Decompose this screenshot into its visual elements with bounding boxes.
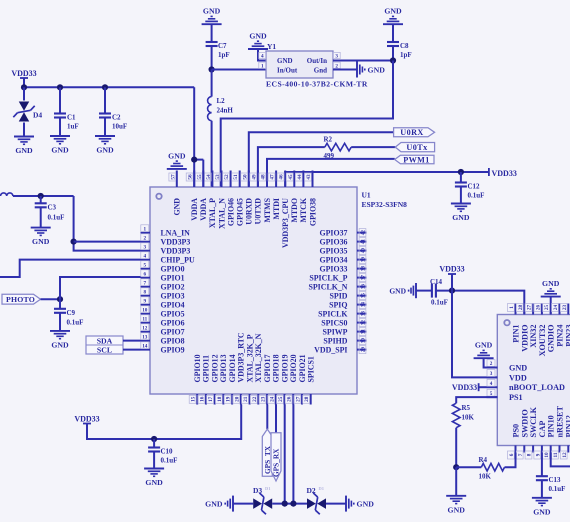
pin 8 U2 SWCLK bbox=[532, 445, 534, 452]
pin 27 U1 GPIO21 bbox=[301, 394, 303, 405]
wire R4-PS0 bbox=[505, 453, 516, 468]
svg-text:9: 9 bbox=[535, 453, 541, 456]
svg-text:2: 2 bbox=[490, 361, 493, 367]
pin 3 U2 VDD bbox=[487, 376, 498, 378]
capacitor C13 bbox=[536, 475, 548, 477]
svg-text:GND: GND bbox=[357, 499, 375, 508]
svg-text:8: 8 bbox=[144, 289, 147, 295]
pin 31 U1 SPIWP bbox=[357, 331, 367, 333]
pin 29 U1 VDD_SPI bbox=[357, 349, 367, 351]
svg-text:19: 19 bbox=[226, 396, 232, 402]
svg-text:38: 38 bbox=[361, 266, 367, 272]
flag GPS_TX bbox=[262, 429, 272, 476]
svg-text:nRESET: nRESET bbox=[556, 406, 565, 438]
wire Y1pin2 bbox=[333, 69, 357, 71]
svg-text:27: 27 bbox=[295, 396, 301, 402]
svg-text:24: 24 bbox=[269, 396, 275, 402]
svg-text:SWDIO: SWDIO bbox=[520, 409, 529, 437]
svg-text:GPIO36: GPIO36 bbox=[319, 237, 347, 246]
pin 32 U1 SPICS0 bbox=[357, 322, 367, 324]
node rail-D4 bbox=[21, 84, 27, 90]
svg-text:6: 6 bbox=[144, 271, 147, 277]
svg-text:XTAL_N: XTAL_N bbox=[217, 198, 226, 229]
svg-text:45: 45 bbox=[288, 174, 294, 180]
svg-text:GPS_RX: GPS_RX bbox=[272, 448, 281, 477]
pin 5 U2 PS1 bbox=[487, 396, 498, 398]
svg-text:GPIO14: GPIO14 bbox=[228, 354, 237, 382]
svg-text:GPIO46: GPIO46 bbox=[226, 198, 235, 226]
pin 24 U2 PIN24 bbox=[559, 304, 561, 315]
svg-text:C8: C8 bbox=[400, 42, 409, 50]
svg-text:20: 20 bbox=[234, 396, 240, 402]
svg-text:29: 29 bbox=[361, 347, 367, 353]
svg-text:ESP32-S3FN8: ESP32-S3FN8 bbox=[362, 200, 408, 209]
pin 11 U1 GPIO6 bbox=[141, 322, 151, 324]
svg-text:C7: C7 bbox=[218, 42, 227, 50]
svg-text:D3: D3 bbox=[253, 486, 262, 495]
wire L1-C3 bbox=[13, 195, 74, 197]
wire CHIP_PU route bbox=[0, 260, 141, 277]
pin 25 U2 GNDIO bbox=[550, 304, 552, 315]
wire C12 lead bbox=[460, 172, 462, 183]
svg-text:GPIO45: GPIO45 bbox=[236, 198, 245, 226]
svg-text:56: 56 bbox=[188, 174, 194, 180]
svg-text:GPIO17: GPIO17 bbox=[263, 354, 272, 382]
capacitor C9 bbox=[54, 308, 66, 310]
pin 2 U2 GND bbox=[487, 367, 498, 369]
svg-text:C10: C10 bbox=[161, 448, 174, 456]
wire gnd-C14 bbox=[416, 290, 432, 292]
ground C3 bbox=[31, 227, 51, 229]
flag GPS_RX bbox=[271, 433, 281, 481]
svg-text:R5: R5 bbox=[462, 404, 471, 412]
svg-text:0.1uF: 0.1uF bbox=[161, 457, 178, 465]
svg-text:9: 9 bbox=[144, 298, 147, 304]
capacitor C3 bbox=[35, 202, 47, 204]
pin 28 U2 VDDIO bbox=[523, 304, 525, 315]
svg-text:nBOOT_LOAD: nBOOT_LOAD bbox=[509, 383, 565, 392]
svg-text:C12: C12 bbox=[468, 183, 481, 191]
pin 46 U1 VDD3P3_CPU bbox=[284, 171, 286, 188]
svg-text:35: 35 bbox=[361, 293, 367, 299]
ground Y1-pin2 bbox=[356, 62, 358, 78]
svg-text:SDA: SDA bbox=[97, 336, 113, 345]
label SDA SCL bbox=[86, 336, 123, 354]
wire VDD33-rtc rail bbox=[87, 405, 241, 440]
pin 12 U1 GPIO7 bbox=[141, 331, 151, 333]
svg-text:15: 15 bbox=[191, 396, 197, 402]
pin 1 U1 LNA_IN bbox=[141, 232, 151, 234]
crystal Y1 body bbox=[266, 51, 333, 78]
ground C1 bbox=[50, 135, 70, 137]
svg-text:1uF: 1uF bbox=[67, 123, 79, 131]
svg-text:GPIO7: GPIO7 bbox=[161, 327, 185, 336]
svg-text:12: 12 bbox=[142, 325, 148, 331]
svg-text:GPIO37: GPIO37 bbox=[319, 228, 347, 237]
svg-text:36: 36 bbox=[361, 284, 367, 290]
node R5-R4 junction bbox=[453, 464, 459, 470]
pin 2 U1 VDD3P3 bbox=[141, 241, 151, 243]
svg-text:GPIO33: GPIO33 bbox=[319, 264, 347, 273]
svg-text:U0Tx: U0Tx bbox=[406, 143, 428, 152]
svg-text:55: 55 bbox=[197, 174, 203, 180]
pin 9 U1 GPIO4 bbox=[141, 304, 151, 306]
svg-text:0.1uF: 0.1uF bbox=[48, 213, 65, 221]
svg-text:54: 54 bbox=[206, 174, 212, 180]
svg-text:MTMS: MTMS bbox=[263, 197, 272, 222]
svg-text:1: 1 bbox=[509, 306, 515, 309]
pin 33 U1 SPICLK bbox=[357, 313, 367, 315]
node rail-C2 bbox=[102, 84, 108, 90]
svg-text:VDDA: VDDA bbox=[190, 198, 199, 221]
ground D4 bbox=[14, 136, 34, 138]
pin 23 U1 GPIO17 bbox=[266, 394, 268, 405]
svg-text:GPIO6: GPIO6 bbox=[161, 318, 185, 327]
svg-text:32: 32 bbox=[361, 320, 367, 326]
pin 41 U1 GPIO36 bbox=[357, 241, 367, 243]
pin 10 U1 GPIO5 bbox=[141, 313, 151, 315]
diode D3 bbox=[253, 498, 262, 509]
ground U2-GNDIO bbox=[541, 296, 561, 298]
pin 6 U1 GPIO1 bbox=[141, 277, 151, 279]
pin 30 U1 SPIHD bbox=[357, 340, 367, 342]
svg-text:XIN32: XIN32 bbox=[529, 325, 538, 348]
ground D2-right bbox=[345, 496, 347, 512]
pin 54 U1 XTAL_P bbox=[211, 171, 213, 188]
svg-text:GND: GND bbox=[533, 507, 551, 516]
capacitor C7 bbox=[206, 41, 218, 43]
pin 38 U1 GPIO33 bbox=[357, 268, 367, 270]
pin 35 U1 SPID bbox=[357, 295, 367, 297]
svg-text:D1: D1 bbox=[319, 486, 325, 491]
svg-text:GND: GND bbox=[277, 57, 293, 65]
svg-text:37: 37 bbox=[361, 275, 367, 281]
ground C13 bbox=[532, 497, 552, 499]
wire C14-VDDIO bbox=[436, 291, 524, 315]
pin 1 U2 PIN1 bbox=[515, 304, 517, 315]
wire C9 lead bbox=[59, 299, 61, 309]
wire gnd-D3 bbox=[233, 503, 253, 505]
wire VDD33 rail bbox=[24, 86, 194, 88]
pin 12 U2 PIN12 bbox=[567, 445, 569, 452]
svg-text:42: 42 bbox=[361, 230, 367, 236]
U2 pin1 marker bbox=[504, 320, 509, 325]
svg-text:1: 1 bbox=[261, 63, 264, 69]
svg-text:GPIO8: GPIO8 bbox=[161, 336, 185, 345]
svg-text:SPIQ: SPIQ bbox=[329, 300, 347, 309]
wire C13-gnd bbox=[541, 480, 543, 498]
svg-text:48: 48 bbox=[261, 174, 267, 180]
wire GPIO20 riser bbox=[292, 405, 294, 504]
wire SDA bbox=[123, 340, 141, 342]
pin 3 Y1 bbox=[333, 52, 340, 58]
svg-text:VDD: VDD bbox=[509, 373, 527, 382]
wire PIN10 route bbox=[551, 453, 570, 467]
diode D2 bbox=[307, 498, 316, 509]
svg-text:CHIP_PU: CHIP_PU bbox=[161, 255, 195, 264]
pin 22 U1 XTAL_32K_N bbox=[257, 394, 259, 405]
wire PHOTO-GPIO1 bbox=[60, 277, 141, 299]
svg-text:D4: D4 bbox=[33, 111, 42, 120]
wire C9-gnd bbox=[59, 313, 61, 331]
pin 45 U1 MTDO bbox=[293, 171, 295, 188]
svg-text:GPIO20: GPIO20 bbox=[289, 354, 298, 382]
pin 50 U1 U0RXD bbox=[248, 171, 250, 188]
wire D4 lead bbox=[23, 87, 25, 100]
svg-text:11: 11 bbox=[553, 452, 559, 457]
svg-text:23: 23 bbox=[562, 305, 568, 311]
wire VDD feed bbox=[452, 291, 497, 378]
pin 40 U1 GPIO35 bbox=[357, 250, 367, 252]
svg-text:49: 49 bbox=[251, 174, 257, 180]
svg-text:MTDO: MTDO bbox=[290, 198, 299, 223]
pin 3 U1 VDD3P3 bbox=[141, 250, 151, 252]
svg-text:25: 25 bbox=[278, 396, 284, 402]
pin 16 U1 GPIO11 bbox=[205, 394, 207, 405]
wire VDD3P3 pin2 bbox=[74, 241, 141, 243]
node VDDA junction bbox=[191, 157, 197, 163]
svg-text:3: 3 bbox=[490, 371, 493, 377]
svg-text:VDD33: VDD33 bbox=[492, 169, 517, 178]
svg-text:6: 6 bbox=[509, 453, 515, 456]
svg-text:GND: GND bbox=[389, 286, 406, 295]
svg-text:4: 4 bbox=[490, 381, 493, 387]
wire gnd-Y1pin4 bbox=[258, 49, 266, 61]
pin 39 U1 GPIO34 bbox=[357, 259, 367, 261]
svg-text:14: 14 bbox=[142, 343, 148, 349]
svg-text:VDD3P3: VDD3P3 bbox=[161, 237, 191, 246]
svg-text:GND: GND bbox=[32, 237, 50, 246]
svg-text:4: 4 bbox=[144, 253, 147, 259]
svg-text:PIN12: PIN12 bbox=[564, 415, 570, 437]
svg-text:SCL: SCL bbox=[97, 346, 112, 355]
svg-text:GND: GND bbox=[51, 146, 69, 155]
svg-text:R4: R4 bbox=[479, 456, 488, 464]
svg-text:51: 51 bbox=[233, 174, 239, 180]
svg-text:VDD33: VDD33 bbox=[439, 265, 464, 274]
svg-text:30: 30 bbox=[361, 338, 367, 344]
svg-text:GPIO34: GPIO34 bbox=[319, 255, 347, 264]
svg-text:53: 53 bbox=[215, 174, 221, 180]
svg-text:XTAL_P: XTAL_P bbox=[208, 198, 217, 228]
svg-text:SPIHD: SPIHD bbox=[323, 336, 347, 345]
svg-text:SWCLK: SWCLK bbox=[529, 406, 538, 437]
wire C12-gnd bbox=[460, 187, 462, 204]
svg-text:GPIO11: GPIO11 bbox=[202, 355, 211, 383]
node C3 junction bbox=[38, 193, 44, 199]
svg-text:VDD33: VDD33 bbox=[452, 383, 477, 392]
svg-text:CAP: CAP bbox=[538, 421, 547, 438]
pin 10 U2 PIN10 bbox=[550, 445, 552, 452]
flag U0RX bbox=[394, 128, 435, 137]
svg-text:GPIO5: GPIO5 bbox=[161, 309, 185, 318]
svg-text:U0TXD: U0TXD bbox=[254, 198, 263, 225]
ground U1-pin57 bbox=[167, 168, 187, 170]
svg-text:D1: D1 bbox=[265, 486, 271, 491]
ground U2-GND bbox=[474, 357, 494, 359]
svg-text:11: 11 bbox=[142, 316, 147, 322]
pin 21 U1 XTAL_32K_P bbox=[249, 394, 251, 405]
svg-text:XTAL_32K_N: XTAL_32K_N bbox=[254, 333, 263, 382]
svg-text:GPIO4: GPIO4 bbox=[161, 300, 185, 309]
pin 8 U1 GPIO3 bbox=[141, 295, 151, 297]
pin 37 U1 SPICLK_P bbox=[357, 277, 367, 279]
svg-text:5: 5 bbox=[144, 262, 147, 268]
svg-text:GPIO9: GPIO9 bbox=[161, 345, 185, 354]
svg-text:26: 26 bbox=[287, 396, 293, 402]
power flag VDD33-right bbox=[488, 168, 490, 176]
wire L2-XTALP bbox=[211, 121, 213, 187]
svg-text:5: 5 bbox=[490, 391, 493, 397]
svg-text:D2: D2 bbox=[307, 486, 316, 495]
svg-text:10: 10 bbox=[544, 452, 550, 458]
pin 4 U2 nBOOT_LOAD bbox=[487, 386, 498, 388]
wire gnd-C7 bbox=[211, 24, 213, 42]
svg-text:12: 12 bbox=[562, 452, 568, 458]
wire C7-node bbox=[211, 46, 213, 70]
wire D2-gnd bbox=[326, 503, 346, 505]
svg-text:PIN10: PIN10 bbox=[547, 415, 556, 437]
svg-text:47: 47 bbox=[270, 174, 276, 180]
svg-text:GPIO19: GPIO19 bbox=[280, 354, 289, 382]
wire XTALN route bbox=[221, 61, 393, 188]
svg-text:In/Out: In/Out bbox=[277, 66, 298, 74]
svg-text:PWM1: PWM1 bbox=[403, 155, 430, 164]
svg-text:7: 7 bbox=[518, 453, 524, 456]
svg-text:22: 22 bbox=[252, 396, 258, 402]
pin 52 U1 GPIO46 bbox=[230, 171, 232, 188]
node XTAL-P junction bbox=[209, 66, 215, 72]
wire VDD3P3 route bbox=[74, 196, 141, 251]
svg-text:VDD3P3_RTC: VDD3P3_RTC bbox=[237, 332, 246, 382]
capacitor C8 bbox=[387, 41, 399, 43]
pin 17 U1 GPIO12 bbox=[214, 394, 216, 405]
resistor R2 bbox=[325, 143, 351, 151]
svg-text:39: 39 bbox=[361, 257, 367, 263]
wire C3-gnd bbox=[40, 207, 42, 227]
pin 44 U1 MTCK bbox=[302, 171, 304, 188]
svg-text:52: 52 bbox=[224, 174, 230, 180]
svg-text:LNA_IN: LNA_IN bbox=[161, 228, 191, 237]
svg-text:GPIO10: GPIO10 bbox=[193, 354, 202, 382]
IC U1 ESP32-S3FN8 bbox=[150, 187, 357, 394]
svg-text:GND: GND bbox=[173, 198, 182, 216]
svg-text:28: 28 bbox=[518, 305, 524, 311]
node USB DP bbox=[290, 501, 296, 507]
node C10 junction bbox=[151, 436, 157, 442]
svg-text:GPIO1: GPIO1 bbox=[161, 273, 185, 282]
ground C7-top bbox=[202, 23, 222, 25]
capacitor C12 bbox=[455, 181, 467, 183]
svg-text:GND: GND bbox=[15, 146, 33, 155]
wire node-L2 bbox=[211, 70, 213, 97]
pin 2 Y1 bbox=[333, 62, 340, 68]
pin 7 U2 SWDIO bbox=[523, 445, 525, 452]
svg-text:C2: C2 bbox=[112, 114, 121, 122]
wire C10 lead bbox=[153, 439, 155, 448]
svg-text:U0RXD: U0RXD bbox=[245, 198, 254, 225]
svg-text:GPIO13: GPIO13 bbox=[219, 354, 228, 382]
ground C8-top bbox=[383, 23, 403, 25]
ground C10 bbox=[144, 468, 164, 470]
wire GPS_TX riser bbox=[266, 405, 268, 430]
svg-text:VDDIO: VDDIO bbox=[520, 325, 529, 352]
wire VDDA riser bbox=[193, 87, 195, 187]
pin 5 U1 GPIO0 bbox=[141, 268, 151, 270]
node USB DM bbox=[282, 501, 288, 507]
svg-text:26: 26 bbox=[535, 305, 541, 311]
svg-text:C3: C3 bbox=[48, 203, 57, 211]
ground R5 bbox=[446, 495, 466, 497]
wire node-R4 bbox=[456, 466, 481, 468]
svg-text:1pF: 1pF bbox=[400, 51, 412, 59]
svg-text:GND: GND bbox=[145, 478, 163, 487]
svg-text:ECS-400-10-37B2-CKM-TR: ECS-400-10-37B2-CKM-TR bbox=[266, 79, 368, 88]
svg-text:43: 43 bbox=[306, 174, 312, 180]
wire C2-gnd bbox=[104, 118, 106, 137]
wire C3 lead bbox=[40, 196, 42, 203]
node C14 junction bbox=[449, 288, 455, 294]
svg-text:GND: GND bbox=[448, 505, 466, 514]
pin 28 U1 SPICS1 bbox=[310, 394, 312, 405]
IC U2 body bbox=[497, 315, 570, 446]
svg-text:10K: 10K bbox=[479, 473, 492, 481]
svg-text:7: 7 bbox=[144, 280, 147, 286]
pin 18 U1 GPIO13 bbox=[222, 394, 224, 405]
pin 43 U1 GPIO38 bbox=[312, 171, 314, 188]
pin 11 U2 nRESET bbox=[559, 445, 561, 452]
svg-text:GPIO21: GPIO21 bbox=[298, 354, 307, 382]
wire SCL bbox=[123, 349, 141, 351]
pin 7 U1 GPIO2 bbox=[141, 286, 151, 288]
svg-text:GPIO12: GPIO12 bbox=[210, 354, 219, 382]
wire gnd-GNDIO bbox=[550, 297, 552, 315]
svg-text:8: 8 bbox=[527, 453, 533, 456]
svg-text:C14: C14 bbox=[430, 278, 443, 286]
svg-text:3: 3 bbox=[335, 54, 338, 60]
svg-text:PS1: PS1 bbox=[509, 393, 523, 402]
svg-text:R2: R2 bbox=[324, 136, 333, 144]
svg-text:VDDA: VDDA bbox=[199, 198, 208, 221]
svg-text:GPIO0: GPIO0 bbox=[161, 264, 185, 273]
node PHOTO junction bbox=[57, 296, 63, 302]
svg-text:10uF: 10uF bbox=[112, 123, 127, 131]
pin 36 U1 SPICLK_N bbox=[357, 286, 367, 288]
svg-text:GNDIO: GNDIO bbox=[547, 325, 556, 353]
svg-text:C9: C9 bbox=[67, 309, 76, 317]
svg-text:C1: C1 bbox=[67, 114, 76, 122]
svg-text:1: 1 bbox=[144, 226, 147, 232]
pin 34 U1 SPIQ bbox=[357, 304, 367, 306]
wire PS1-R5 bbox=[456, 397, 497, 403]
pin 24 U1 GPIO18 bbox=[275, 394, 277, 405]
svg-text:2: 2 bbox=[144, 235, 147, 241]
pin 47 U1 MTDI bbox=[275, 171, 277, 188]
svg-text:SPIWP: SPIWP bbox=[323, 327, 348, 336]
svg-text:VDD33: VDD33 bbox=[11, 69, 36, 78]
pin 15 U1 GPIO10 bbox=[196, 394, 198, 405]
svg-text:SPICS0: SPICS0 bbox=[321, 318, 347, 327]
wire GPIO19 riser bbox=[284, 405, 286, 504]
flag PHOTO bbox=[2, 294, 41, 304]
svg-text:50: 50 bbox=[242, 174, 248, 180]
capacitor C10 bbox=[148, 446, 160, 448]
svg-text:SPICLK_P: SPICLK_P bbox=[309, 273, 347, 282]
pin 23 U2 PIN23 bbox=[567, 304, 569, 315]
svg-text:VDD_SPI: VDD_SPI bbox=[314, 345, 347, 354]
svg-text:PIN23: PIN23 bbox=[564, 325, 570, 347]
inductor L2 bbox=[208, 97, 212, 121]
